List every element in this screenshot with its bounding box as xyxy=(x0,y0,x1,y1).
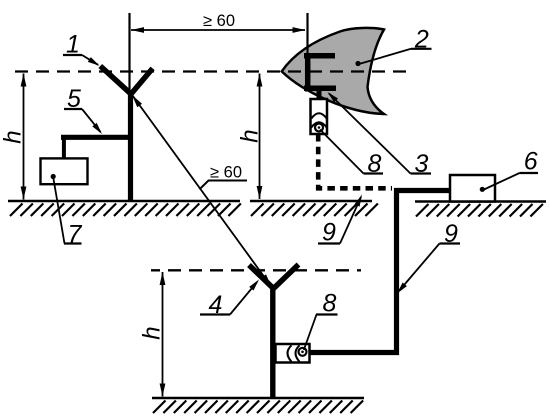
svg-text:h: h xyxy=(139,326,166,339)
svg-text:≥ 60: ≥ 60 xyxy=(203,12,235,30)
svg-text:h: h xyxy=(237,129,264,142)
svg-text:9: 9 xyxy=(322,219,336,247)
svg-text:6: 6 xyxy=(524,148,538,176)
svg-text:h: h xyxy=(0,130,27,143)
svg-text:≥ 60: ≥ 60 xyxy=(210,164,242,182)
svg-text:8: 8 xyxy=(323,290,337,318)
